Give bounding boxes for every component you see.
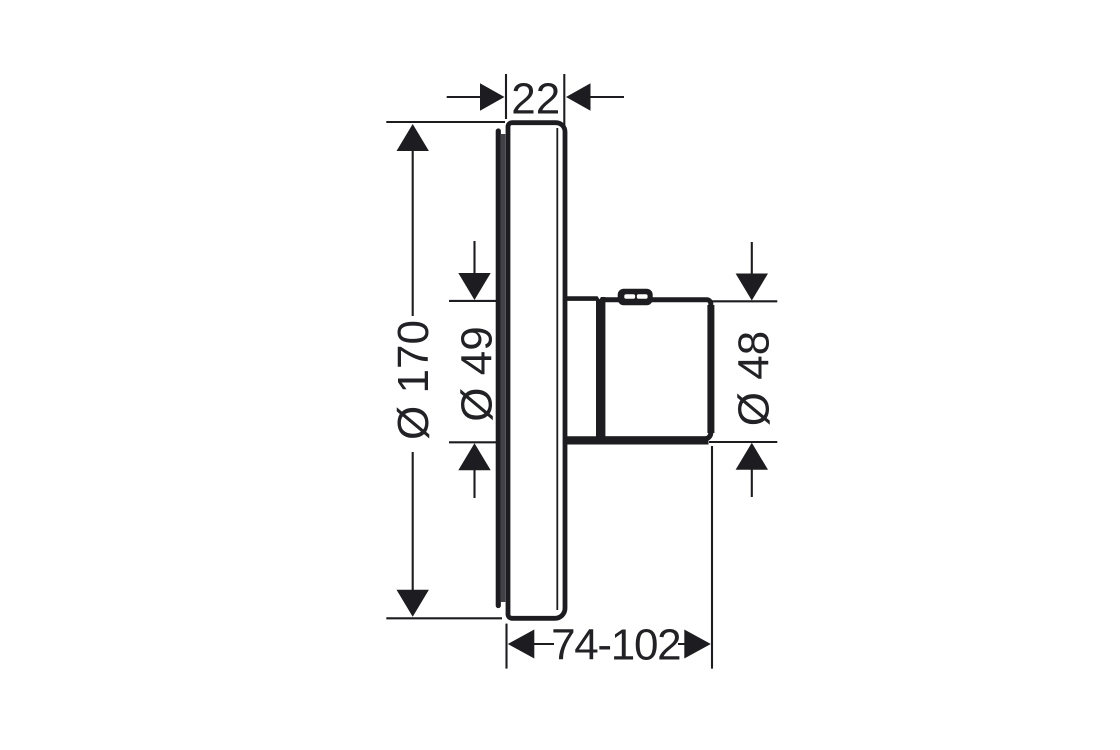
svg-text:22: 22: [511, 75, 560, 124]
svg-text:Ø 170: Ø 170: [389, 320, 438, 440]
svg-text:74-102: 74-102: [551, 621, 680, 670]
svg-text:Ø 48: Ø 48: [730, 331, 779, 426]
svg-text:Ø 49: Ø 49: [453, 326, 502, 421]
